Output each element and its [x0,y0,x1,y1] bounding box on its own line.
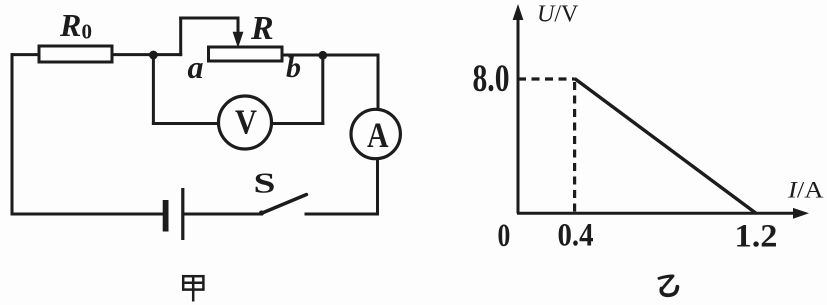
graph y-axis [517,18,520,214]
svg-text:1.2: 1.2 [735,219,778,255]
wire bottom left horizontal [12,213,163,216]
resistor R0 [39,46,112,62]
graph x-axis arrowhead [793,208,809,219]
svg-text:S: S [254,168,276,199]
switch pivot [259,210,264,215]
svg-text:R: R [250,10,274,47]
battery negative plate (thick short) [163,200,169,232]
junction node b-side [318,51,327,60]
svg-text:0.4: 0.4 [558,217,594,253]
svg-text:b: b [286,51,301,84]
voltmeter V circle [219,96,272,149]
svg-text:0: 0 [498,218,511,254]
U-I characteristic line [575,79,756,214]
wire rheostat bypass top [181,17,238,20]
battery positive plate (thin long) [181,188,184,240]
svg-text:8.0: 8.0 [473,57,510,100]
wire rheostat bypass riser [179,18,182,55]
label jia (caption 甲) drawn strokes [183,276,203,301]
label yi (caption 乙) drawn strokes [659,276,677,295]
junction node a-side [149,51,158,60]
graph y-axis arrowhead [513,4,524,20]
wire rheostat b to junction [282,54,323,57]
svg-text:a: a [188,49,204,85]
dashed line vertical at 0.4 [573,82,576,213]
svg-text:V: V [235,102,257,141]
wire voltmeter left vertical [152,55,155,124]
wire junction b to ammeter branch [323,54,378,57]
rheostat R body [209,47,283,61]
wire voltmeter right vertical [321,55,324,124]
dashed line horizontal at 8.0 [518,77,575,80]
ammeter A circle [351,109,400,158]
wire switch to ammeter [306,213,378,216]
wire battery to switch [184,213,261,216]
wire R0 right to riser [112,53,181,56]
svg-text:I/A: I/A [787,177,824,202]
svg-text:U/V: U/V [537,1,579,27]
wire voltmeter left horizontal [153,122,218,125]
wire voltmeter right horizontal [272,122,323,125]
graph x-axis [517,212,794,215]
wire slider arrow stem [237,18,240,34]
svg-text:0: 0 [82,20,93,44]
svg-text:R: R [59,7,81,43]
wire left top horizontal [12,53,39,56]
wire ammeter top vertical [377,55,380,109]
wire ammeter bottom vertical [376,159,379,214]
slider arrowhead [233,32,244,48]
switch S blade [261,195,307,214]
svg-text:A: A [367,115,389,155]
wire left vertical [11,55,14,214]
